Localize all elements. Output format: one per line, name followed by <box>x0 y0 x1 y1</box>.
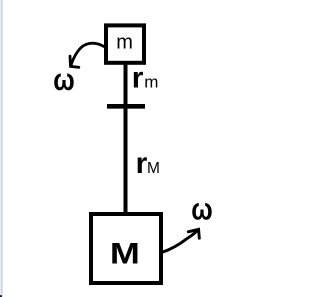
corner mark <box>0 295 2 297</box>
svg-text:m: m <box>144 73 158 92</box>
page margin line <box>1 0 3 297</box>
pivot tick <box>107 104 145 109</box>
svg-text:ω: ω <box>53 62 74 97</box>
mass M box <box>91 214 161 283</box>
mass m box <box>106 25 144 62</box>
wire (rod between masses) <box>124 63 128 214</box>
label r_m <box>132 62 159 95</box>
svg-text:ω: ω <box>191 192 212 227</box>
rotation arrow (top left) <box>70 43 104 67</box>
svg-text:r: r <box>132 62 144 95</box>
rotation arrow (bottom right) <box>161 229 199 253</box>
label r_M <box>136 147 160 180</box>
svg-text:r: r <box>136 147 148 180</box>
svg-text:m: m <box>116 31 133 53</box>
svg-text:M: M <box>147 160 160 177</box>
omega label (bottom right) <box>191 192 212 227</box>
svg-text:M: M <box>110 237 140 270</box>
omega label (top left) <box>53 62 74 97</box>
